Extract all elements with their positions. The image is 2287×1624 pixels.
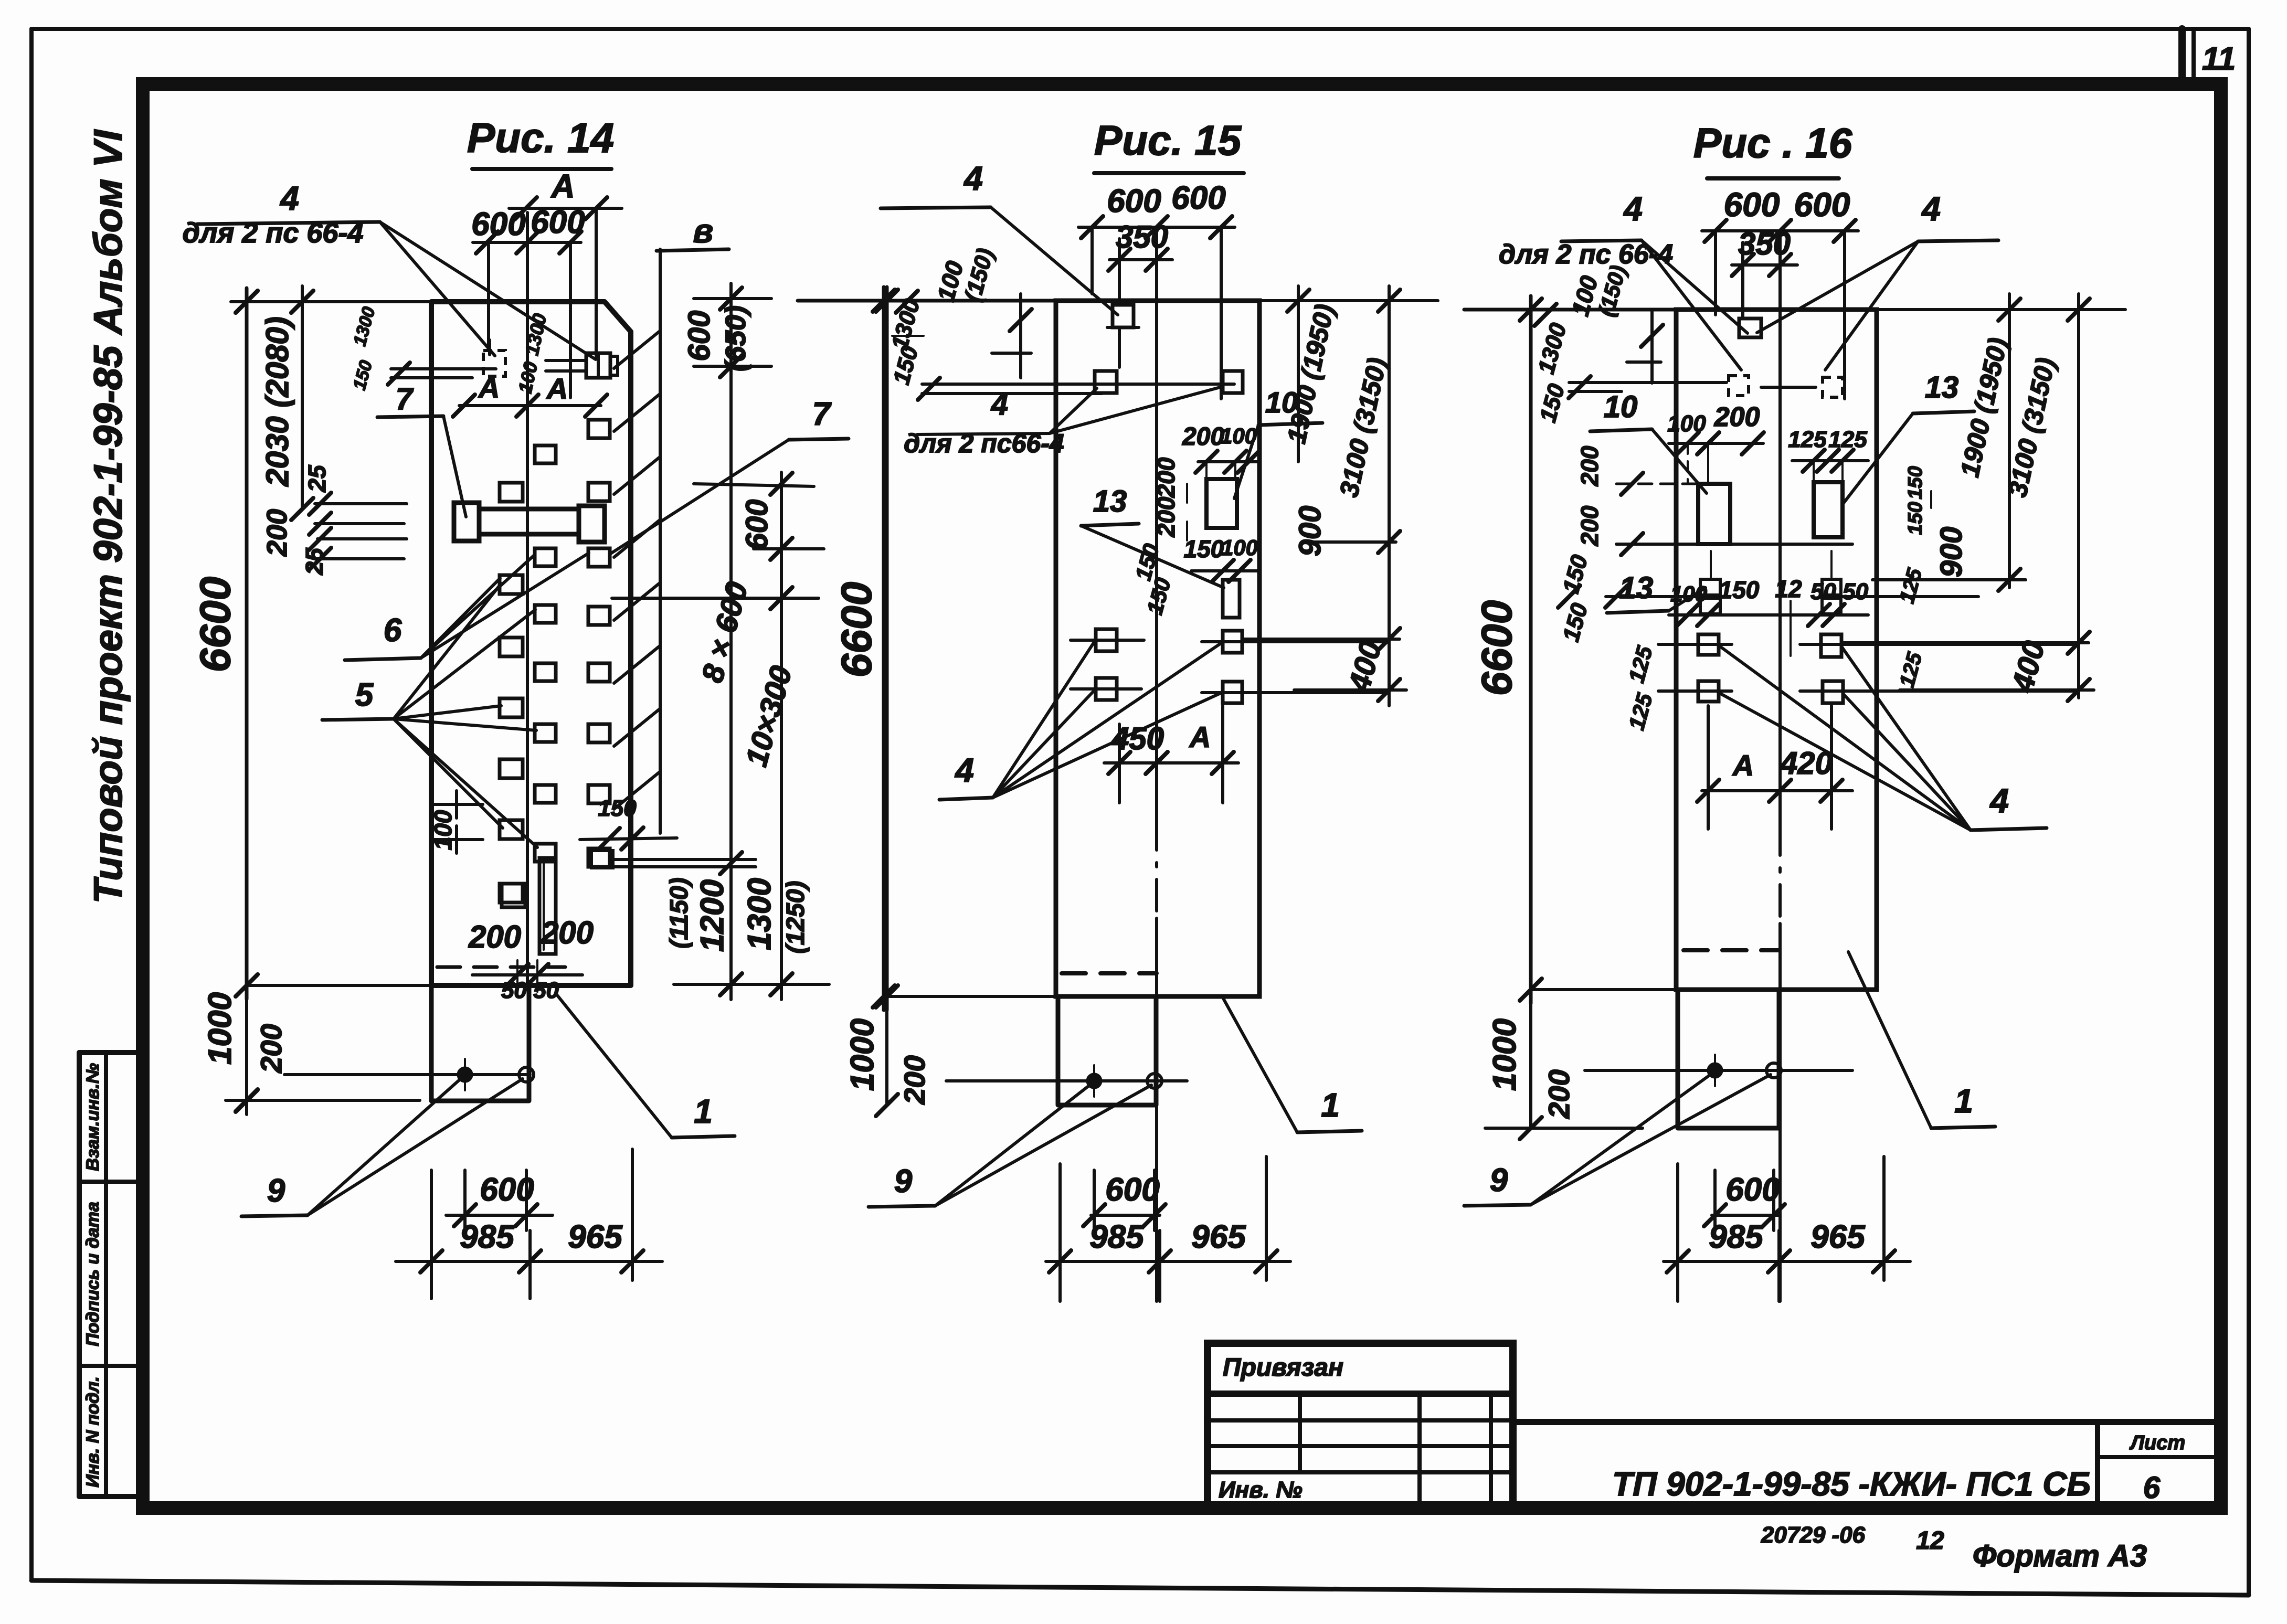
svg-text:1: 1 [1954,1082,1973,1120]
svg-text:965: 965 [1810,1219,1866,1255]
fig15 embed 13 rect [1223,580,1240,618]
fig16 embeds 13 small [1700,551,1841,614]
fig16 label 4 right [1757,190,1998,370]
fig15 leader to squares right [1243,642,1385,693]
fig14 dim 8x600 [695,578,755,686]
fig16 dim 400 [1843,632,2094,701]
fig15 label 4 mid note [904,387,1220,458]
svg-text:50 50: 50 50 [501,978,559,1003]
svg-text:150: 150 [1904,466,1926,499]
list label [2129,1432,2185,1454]
fig14 dim 600 right [612,473,824,609]
svg-text:600: 600 [471,206,525,242]
svg-text:4: 4 [1989,782,2009,820]
fig14 right verticals [731,283,781,1000]
fig14 label 9 [241,1078,523,1216]
svg-text:150: 150 [598,795,637,821]
svg-text:6: 6 [2143,1471,2161,1505]
fig15 squares row2 row3 [1096,629,1242,703]
fig15 dim 1000 200 [844,1018,931,1105]
panel 2 outline fig15 [1056,301,1259,996]
fig14 slot leader lines [612,852,756,874]
page number 11 [2202,41,2236,77]
fig15 dim 150 100 [1184,535,1259,582]
fig16 label 4 fan [1719,645,2047,830]
svg-text:9: 9 [267,1173,285,1209]
format A3 note [1973,1539,2147,1573]
svg-text:600: 600 [1105,1172,1159,1208]
title text TP 902-1-99-85 [1612,1465,2091,1503]
doc number 20729-06 [1761,1522,1866,1548]
fig15 square ticks [1071,640,1267,693]
fig15 dim 400 [1243,628,1406,701]
svg-text:200: 200 [261,509,293,557]
svg-text:А: А [550,168,575,205]
svg-text:(650): (650) [720,305,751,371]
inner drawing frame [143,84,2221,1508]
fig15 dim 450 A [1104,706,1238,803]
fig14 dim 600 600 [471,204,585,253]
fig16 dim 150 150 left rotated [1558,552,1593,644]
fig16 label 10 [1590,390,1707,493]
fig15 ext verticals top [1092,227,1221,399]
svg-text:350: 350 [1116,219,1168,254]
fig14 dim 1000 200 bottom left [202,972,436,1114]
fig15 embed 10 rect [1206,479,1237,528]
svg-text:Лист: Лист [2129,1432,2185,1454]
fig16 dashed embeds row [1729,376,1843,397]
fig14 dim 600(650) [682,288,771,377]
fig16 title [1693,120,1852,178]
svg-text:125: 125 [1828,427,1867,452]
svg-text:200: 200 [898,1055,931,1105]
fig16 dim 100 200 [1667,402,1764,483]
fig14 embed M2 leader lines [546,360,586,371]
fig16 label 1 [1848,952,1995,1128]
fig15 dashed bottom line [1062,971,1157,975]
svg-text:1200: 1200 [694,879,730,952]
svg-text:Рис. 15: Рис. 15 [1094,117,1242,164]
svg-text:985: 985 [1709,1219,1764,1255]
svg-text:12: 12 [1916,1527,1944,1555]
panel 3 outline fig16 [1676,310,1877,990]
fig14 dim line bottom right [674,973,829,995]
svg-text:600: 600 [740,500,774,550]
fig14 dim 1200 1300 texts [665,877,810,953]
fig16 top right dim [1877,299,2125,321]
fig15 label 10 [1234,386,1322,498]
fig15 title [1094,117,1244,173]
fig16 bottom dim line [1531,988,1678,991]
svg-text:900: 900 [1293,506,1327,557]
fig14 dim 100 [429,791,483,853]
svg-text:1300: 1300 [742,878,778,950]
fig15 dim 350 [1108,219,1172,271]
fig16 axis line [1778,231,1782,1301]
fig14 label 4 [197,179,596,359]
fig16 top embed [1739,319,1761,337]
svg-text:600: 600 [1107,183,1161,219]
svg-text:20729 -06: 20729 -06 [1761,1522,1866,1548]
fig14 bottom squares [502,884,525,907]
fig16 dim 600 bottom [1704,1170,1785,1230]
svg-text:12: 12 [1775,575,1802,602]
svg-text:7: 7 [812,396,832,432]
svg-text:200: 200 [468,919,521,954]
fig15 dim 1300 150 rotated [887,291,925,387]
fig15 label 1 [1223,997,1362,1132]
svg-text:200: 200 [1542,1069,1575,1119]
fig14 dim A A [453,371,607,417]
fig14 pier outline [431,985,529,1101]
svg-text:900: 900 [1934,527,1968,578]
svg-text:в: в [693,212,714,250]
svg-text:200: 200 [1152,496,1180,537]
svg-text:для 2 пс 66-4: для 2 пс 66-4 [1499,239,1673,270]
svg-text:6600: 6600 [1473,600,1521,696]
svg-text:9: 9 [1490,1162,1508,1198]
svg-text:4: 4 [1921,190,1941,228]
fig14 dim 10x300 [739,662,799,770]
fig15 right chain verticals [1298,286,1389,706]
svg-text:25: 25 [301,547,328,576]
svg-text:600: 600 [1724,186,1780,224]
fig14 dim 200 200 bottom [468,915,594,986]
svg-text:4: 4 [963,160,983,197]
fig14 label 7 right [610,396,849,554]
svg-text:100: 100 [1221,535,1258,560]
fig14 label 6 [345,553,589,660]
fig14 embedded square plates [500,420,610,903]
fig15 label 4 top [881,160,1118,315]
fig15 top right dim [1259,290,1438,312]
stamp text inv no [1219,1477,1303,1503]
fig15 dim 100 150 rotated [931,246,1032,378]
svg-text:600: 600 [1171,180,1225,216]
svg-text:125: 125 [1788,427,1827,452]
svg-text:4: 4 [1623,190,1643,228]
fig14 axis line [526,213,529,985]
fig14 dashed bottom line [437,965,565,969]
svg-text:для 2 пс 66-4: для 2 пс 66-4 [183,217,364,249]
fig15 top dim line [798,290,1056,312]
fig14 dim 600 bottom [446,1170,553,1230]
margin label inv n podl [83,1376,103,1488]
fig15 top embed [1107,305,1139,367]
fig15 row leader lines [918,378,1234,400]
fig14 extension verticals top [489,208,596,398]
fig14 dim 2030(2080) [260,286,313,520]
fig14 dim 985 965 [396,1149,662,1299]
svg-text:6: 6 [384,612,402,649]
fig16 embed 13 rect right [1814,482,1843,537]
fig15 dim 200 100 [1182,423,1259,480]
svg-text:200: 200 [541,915,594,950]
fig15 pier outline [1058,996,1156,1105]
fig15 dim 6600 [876,287,898,1116]
svg-text:11: 11 [2202,41,2236,77]
svg-text:10: 10 [1604,390,1638,424]
fig16 dim 350 [1732,226,1797,276]
svg-text:600: 600 [1794,186,1850,224]
fig15 lifting anchors [946,1065,1187,1097]
svg-text:965: 965 [568,1219,623,1255]
fig14 leader ladder [614,249,660,833]
svg-text:Рис . 16: Рис . 16 [1693,120,1852,166]
fig16 dim 150 150 rotated right [1904,466,1931,535]
stamp text privyazan [1223,1354,1343,1382]
svg-text:600: 600 [1725,1172,1780,1208]
fig16 dim 100 150 rotated [1566,263,1663,383]
fig15 label 13 [1081,484,1224,588]
fig16 dim 985 965 [1664,1156,1910,1301]
svg-text:1: 1 [1321,1086,1340,1124]
fig14 dim A top [509,168,622,219]
fig16 dim 1300 150 rotated [1533,304,1572,425]
fig14 label 1 [557,995,735,1138]
fig16 right chain verticals [2009,294,2079,698]
svg-text:А: А [1732,749,1754,782]
svg-text:985: 985 [460,1219,515,1255]
title block stamp table [1208,1343,1513,1505]
svg-text:1000: 1000 [202,992,238,1065]
svg-text:Рис. 14: Рис. 14 [467,114,614,161]
fig16 label 9 [1464,1074,1771,1206]
svg-text:200: 200 [1576,445,1603,486]
svg-text:А: А [546,372,568,405]
fig16 square row ticks [1658,644,2076,691]
svg-text:350: 350 [1738,226,1791,261]
svg-text:600: 600 [531,204,585,240]
fig16 dashed bottom line [1684,948,1778,952]
fig16 dim 125 125 [1788,427,1868,480]
svg-text:(1250): (1250) [782,881,810,954]
fig16 dim 100 150 row [1669,576,1769,626]
fig15 dim 200 200 rotated [1152,457,1187,540]
fig14 bearing bar 7 [454,503,605,542]
top-right page number box [2182,29,2194,84]
svg-text:Привязан: Привязан [1223,1354,1343,1382]
svg-text:200: 200 [255,1024,288,1073]
fig16 dim 1900(1950) [1955,335,2013,480]
fig14 embed plate M2 [586,353,618,378]
fig16 row13 leader lines [1605,586,1978,608]
fig14 label 5 [322,583,537,847]
fig14 label v top [657,212,729,251]
fig16 lifting anchors [1585,1055,1852,1086]
fig15 dim 985 965 [1046,1156,1290,1301]
fig16 ext verticals top [1716,231,1845,399]
fig16 dim 200 200 rotated [1576,445,1852,555]
svg-text:13: 13 [1093,484,1127,518]
left margin stamp boxes [79,1053,142,1496]
fig16 note dlya 2 ps 66-4 [1499,239,1673,270]
fig16 label 4 left [1561,190,1748,370]
title bar lines [1513,1422,2221,1505]
fig14 ground dim line [226,1089,420,1111]
fig15 dim 600 600 top [1078,180,1235,238]
left margin project title [86,129,131,904]
svg-text:965: 965 [1191,1219,1246,1255]
svg-text:Инв. N подл.: Инв. N подл. [83,1376,103,1488]
fig16 dim 600 600 top [1702,186,1858,242]
svg-text:420: 420 [1780,746,1833,781]
svg-text:(1150): (1150) [665,877,693,948]
number 12 [1916,1527,1944,1555]
svg-text:4: 4 [991,387,1008,421]
svg-text:25: 25 [303,464,331,493]
svg-text:150: 150 [1184,535,1224,562]
svg-text:1000: 1000 [1487,1018,1523,1091]
fig15 label 9 [869,1084,1151,1207]
fig16 row leader lines [1569,376,1816,398]
margin label podpis i data [83,1202,103,1346]
fig15 dim 900 [1293,506,1400,557]
fig14 dim 50 50 [501,960,559,1003]
fig14 embed plate M1 dashed [350,305,505,392]
fig16 dim 1000 200 [1485,1018,1643,1128]
svg-text:150: 150 [1904,502,1926,535]
svg-text:200: 200 [1714,402,1760,432]
panel 1 outline fig14 [431,302,631,985]
svg-text:4: 4 [279,179,299,217]
svg-text:985: 985 [1089,1219,1145,1255]
fig16 dim 900 [1872,527,2026,591]
svg-text:200: 200 [1576,505,1603,546]
sheet number 6 [2143,1471,2161,1505]
svg-text:13: 13 [1925,370,1959,405]
fig16 dim 3100(3150) [2003,355,2061,500]
fig14 dim 6600 fig15chain [833,287,895,1010]
fig14 anchor slot [539,858,556,954]
svg-text:6600: 6600 [833,582,881,677]
svg-text:200: 200 [1182,423,1224,451]
svg-text:1: 1 [694,1092,713,1130]
fig16 label 13 right [1843,370,1974,504]
svg-text:1000: 1000 [844,1018,881,1091]
fig14 label 7 left [377,382,466,517]
svg-text:5: 5 [355,677,374,713]
fig14 dim 6600 [192,288,258,999]
svg-text:Взам.инв.№: Взам.инв.№ [83,1063,103,1171]
svg-text:4: 4 [954,751,974,789]
svg-text:6600: 6600 [192,577,239,672]
fig15 dim 150 150 rotated [1130,541,1176,617]
fig14 note dlya 2 ps 66-4 [183,217,364,249]
fig14 rotated 25 200 25 [261,464,331,576]
margin label vzam inv no [83,1063,103,1171]
svg-text:ТП 902-1-99-85 -КЖИ- ПС1 СБ: ТП 902-1-99-85 -КЖИ- ПС1 СБ [1612,1465,2091,1503]
svg-text:600: 600 [682,311,716,362]
fig15 squares row1 [1095,371,1243,393]
fig14 dim 25 200 25 ticks [309,493,407,570]
svg-text:Формат А3: Формат А3 [1973,1539,2147,1573]
fig14 embed double square [591,851,613,868]
svg-text:Инв. №: Инв. № [1219,1477,1303,1503]
svg-text:2030 (2080): 2030 (2080) [260,316,295,487]
fig15 label 4 fan [939,641,1222,800]
svg-text:А: А [1189,720,1211,753]
fig16 embed 10 rect [1698,484,1730,544]
fig14 lifting anchors [284,1059,534,1090]
svg-text:100: 100 [429,810,457,850]
fig15 dim 3100(3150) [1334,355,1392,500]
svg-text:для 2 пс66-4: для 2 пс66-4 [904,429,1064,458]
fig15 axis line [1155,227,1158,1301]
fig16 dim 125 125 left rotated [1624,566,1926,733]
svg-text:200: 200 [1152,457,1180,498]
svg-text:Подпись и дата: Подпись и дата [83,1202,103,1346]
fig14 rotated dims 1300 100 [514,312,550,395]
fig16 label 13 left [1607,571,1706,613]
fig16 dim 6600 [1473,296,1542,1139]
fig16 squares rows [1698,634,1843,703]
svg-text:Типовой проект 902-1-99-85: Типовой проект 902-1-99-85 Альбом VI [86,129,131,904]
fig15 bottom dim line [887,995,1058,998]
fig15 dim 600 bottom [1083,1170,1166,1230]
svg-text:150: 150 [1719,576,1760,603]
fig14 dim 150 small [580,795,677,850]
fig16 dim A 420 [1697,706,1852,829]
fig16 dim 12 50 50 [1769,575,1869,656]
fig14 left dim line top [231,291,436,313]
fig16 top dim line [1464,299,1676,321]
fig15 dim 1900(1950) [1282,302,1340,446]
svg-text:9: 9 [894,1163,913,1200]
svg-text:7: 7 [396,382,414,416]
fig14 title [467,114,614,169]
fig16 pier outline [1678,990,1779,1128]
